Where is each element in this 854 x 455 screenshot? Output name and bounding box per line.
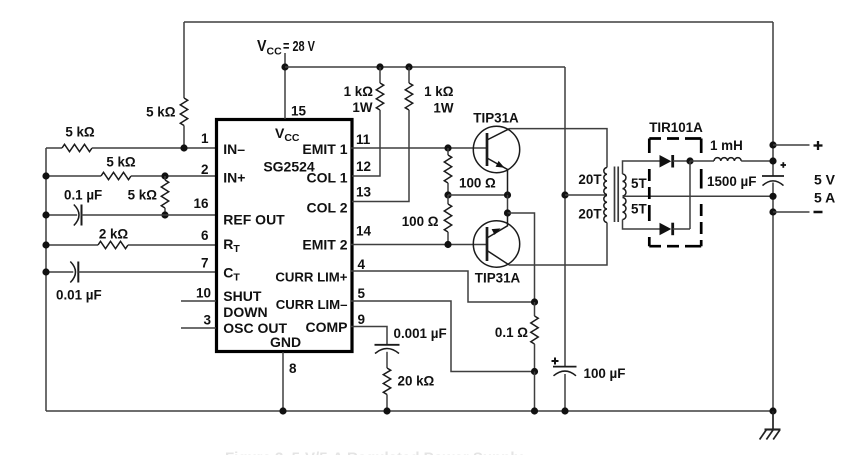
node node sense resistor bottom	[531, 368, 538, 375]
node junction pin14/R9	[444, 241, 451, 248]
svg-text:1 mH: 1 mH	[710, 138, 743, 153]
svg-text:14: 14	[356, 224, 372, 239]
node node diode cathodes	[686, 157, 693, 164]
wire + terminal lead	[773, 144, 810, 146]
svg-text:EMIT 1: EMIT 1	[302, 141, 347, 157]
node node VCC rail at pin15	[281, 63, 288, 70]
transformer T1 primary winding top 20T	[604, 168, 607, 195]
wire pin 5 to sense bottom	[351, 301, 535, 372]
svg-text:0.01 µF: 0.01 µF	[56, 288, 102, 303]
rectifier module TIR101A dashed outline	[649, 139, 701, 247]
svg-text:1 kΩ: 1 kΩ	[424, 84, 454, 99]
node junction left rail/RT row	[42, 241, 49, 248]
wire primary center tap	[565, 194, 607, 196]
label - output terminal	[814, 211, 823, 214]
svg-text:5T: 5T	[631, 176, 647, 191]
svg-text:20T: 20T	[578, 207, 602, 222]
svg-text:COL 1: COL 1	[307, 170, 348, 186]
wire left ground rail	[45, 148, 47, 411]
node node center tap feed	[561, 191, 568, 198]
svg-text:3: 3	[203, 313, 211, 328]
capacitor C2 0.01uF (CT)	[46, 262, 218, 283]
wire secondary top lead	[623, 161, 660, 174]
svg-text:100 µF: 100 µF	[584, 366, 626, 381]
svg-text:TIR101A: TIR101A	[649, 120, 703, 135]
node junction sense/ground rail	[531, 407, 538, 414]
node node C5 bottom / return	[769, 193, 776, 200]
svg-text:REF OUT: REF OUT	[223, 211, 285, 227]
wire bottom ground rail	[46, 410, 773, 412]
svg-text:6: 6	[201, 228, 209, 243]
svg-text:20T: 20T	[578, 172, 602, 187]
svg-text:2: 2	[201, 162, 209, 177]
svg-text:9: 9	[358, 312, 366, 327]
svg-text:1W: 1W	[352, 100, 372, 115]
diode D1 top rectifier	[660, 155, 691, 168]
wire pin 3 stub	[181, 327, 216, 329]
node node VCC rail at R6	[376, 63, 383, 70]
svg-text:0.001 µF: 0.001 µF	[394, 326, 447, 341]
wire pin 15 VCC lead	[284, 53, 286, 119]
wire Q1 collector to primary top	[510, 129, 608, 168]
svg-text:CC: CC	[267, 46, 283, 58]
wire Q2 collector to primary bottom	[509, 223, 607, 266]
svg-text:100 Ω: 100 Ω	[402, 214, 439, 229]
svg-text:1 kΩ: 1 kΩ	[344, 84, 374, 99]
resistor R2 5k feedback (top rail to IN-)	[180, 22, 187, 148]
capacitor C4 100uF input bulk	[552, 358, 577, 376]
resistor R10 0.1 ohm current sense	[531, 302, 538, 372]
resistor R8 100 ohm (Q1 base-emitter)	[444, 148, 451, 195]
wire pin 8 ground lead	[282, 352, 284, 411]
svg-text:2 kΩ: 2 kΩ	[99, 227, 129, 242]
wire cathode to inductor	[690, 160, 714, 162]
svg-text:15: 15	[291, 104, 307, 119]
node node VCC rail at R7	[405, 63, 412, 70]
wire pin 4 to sense top	[351, 271, 535, 302]
svg-text:4: 4	[358, 257, 366, 272]
node junction R4 top/IN+ row	[161, 172, 168, 179]
capacitor C5 1500uF output	[762, 162, 786, 185]
svg-text:TIP31A: TIP31A	[475, 271, 521, 286]
ground symbol	[760, 411, 781, 440]
svg-text:5 kΩ: 5 kΩ	[146, 105, 176, 120]
svg-text:DOWN: DOWN	[223, 304, 267, 320]
svg-text:EMIT 2: EMIT 2	[302, 236, 347, 252]
svg-text:5 kΩ: 5 kΩ	[128, 188, 158, 203]
svg-text:7: 7	[201, 256, 209, 271]
resistor R7 1k 1W (VCC to COL 2)	[352, 67, 413, 202]
transformer T1 secondary winding bottom 5T	[623, 198, 626, 220]
svg-text:0.1 µF: 0.1 µF	[64, 188, 102, 203]
svg-text:5T: 5T	[631, 202, 647, 217]
node junction pin8/ground rail	[279, 407, 286, 414]
wire output rail lower	[772, 183, 774, 412]
node junction R8/R9 midpoint	[444, 191, 451, 198]
wire pin 14 to Q2 base	[351, 244, 487, 246]
wire VCC rail	[285, 66, 565, 68]
svg-text:20 kΩ: 20 kΩ	[398, 374, 435, 389]
resistor R1 5k (IN- to ground)	[46, 144, 218, 151]
svg-text:GND: GND	[270, 334, 301, 350]
svg-text:= 28 V: = 28 V	[283, 38, 315, 55]
resistor R6 1k 1W (VCC to COL 1)	[352, 67, 384, 176]
svg-text:10: 10	[196, 286, 211, 301]
wire secondary center tap return	[623, 195, 774, 197]
node node sense resistor top	[531, 298, 538, 305]
svg-text:5 A: 5 A	[814, 190, 835, 206]
svg-text:1W: 1W	[433, 101, 453, 116]
wire inductor to output	[741, 160, 773, 162]
capacitor C3 0.001uF compensation	[375, 345, 400, 354]
node node output +	[769, 157, 776, 164]
resistor R11 20k compensation	[383, 352, 390, 411]
wire pin 11 to Q1 base	[351, 147, 487, 149]
wire output rail upper	[772, 22, 774, 176]
svg-text:TIP31A: TIP31A	[473, 111, 519, 126]
wire secondary bottom lead	[623, 220, 660, 230]
svg-text:IN–: IN–	[223, 141, 245, 157]
resistor R9 100 ohm (Q2 base-emitter)	[444, 195, 451, 245]
transformer T1 primary winding bottom 20T	[604, 196, 607, 223]
wire C4 to ground rail	[564, 374, 566, 411]
svg-text:1: 1	[201, 131, 209, 146]
wire emitters to sense resistor	[508, 213, 535, 302]
node junction R4 bottom/REF row	[161, 211, 168, 218]
wire cathode tie	[689, 161, 691, 229]
svg-text:12: 12	[356, 159, 371, 174]
wire VCC feed to transformer tap	[564, 67, 566, 367]
svg-text:16: 16	[193, 196, 209, 211]
svg-text:5 V: 5 V	[814, 172, 836, 188]
wire top feedback rail	[184, 21, 773, 23]
diode D2 bottom rectifier	[660, 223, 691, 236]
wire R midpoint to emitters	[448, 194, 508, 196]
node junction R11/ground rail	[383, 407, 390, 414]
wire pin 9 to C3	[351, 327, 387, 345]
op-amp U1 SG2524 PWM controller box	[217, 120, 353, 352]
node junction left rail/REF row	[42, 211, 49, 218]
svg-text:5: 5	[358, 286, 366, 301]
node node + terminal tap	[769, 141, 776, 148]
svg-text:IN+: IN+	[223, 170, 245, 186]
transformer T1 secondary winding top 5T	[623, 174, 626, 196]
transistor Q1 TIP31A	[473, 126, 519, 195]
svg-text:1500 µF: 1500 µF	[707, 174, 756, 189]
resistor R5 2k (RT)	[46, 241, 218, 248]
resistor R4 5k divider (IN+ to REF OUT)	[161, 176, 168, 215]
node junction left rail/CT row	[42, 268, 49, 275]
capacitor C1 0.1uF (REF OUT bypass)	[46, 205, 218, 226]
transistor Q2 TIP31A	[473, 213, 519, 267]
wire emitter tie	[507, 195, 509, 213]
svg-text:Figure 3. 5-V/5-A Regulated: Figure 3. 5-V/5-A Regulated Power Supply	[225, 450, 523, 455]
node junction R2/IN-	[180, 144, 187, 151]
svg-text:5 kΩ: 5 kΩ	[106, 155, 136, 170]
inductor L1 1 mH	[714, 158, 741, 161]
svg-text:5 kΩ: 5 kΩ	[65, 125, 95, 140]
node junction pin11/R8	[444, 144, 451, 151]
node node - terminal tap	[769, 208, 776, 215]
wire - terminal lead	[773, 211, 810, 213]
node junction ground rail/earth	[769, 407, 776, 414]
resistor R3 5k (IN+ row)	[46, 172, 218, 179]
svg-text:CURR LIM–: CURR LIM–	[276, 297, 348, 312]
wire pin 10 stub	[181, 300, 216, 302]
label + output terminal	[814, 141, 823, 150]
wire sense to ground rail	[534, 372, 536, 412]
node node Q1 emitter	[504, 191, 511, 198]
node junction left rail/IN+ row	[42, 172, 49, 179]
svg-text:0.1 Ω: 0.1 Ω	[495, 325, 528, 340]
svg-text:13: 13	[356, 185, 372, 200]
svg-text:SHUT: SHUT	[223, 288, 262, 304]
svg-text:COMP: COMP	[306, 319, 348, 335]
svg-text:COL 2: COL 2	[307, 199, 348, 215]
transformer T1 core	[615, 167, 619, 223]
node node Q2 emitter	[504, 209, 511, 216]
svg-text:8: 8	[289, 361, 297, 376]
svg-text:100 Ω: 100 Ω	[459, 176, 496, 191]
svg-text:CURR LIM+: CURR LIM+	[275, 270, 347, 285]
node junction C4/ground rail	[561, 407, 568, 414]
svg-text:11: 11	[356, 132, 371, 147]
